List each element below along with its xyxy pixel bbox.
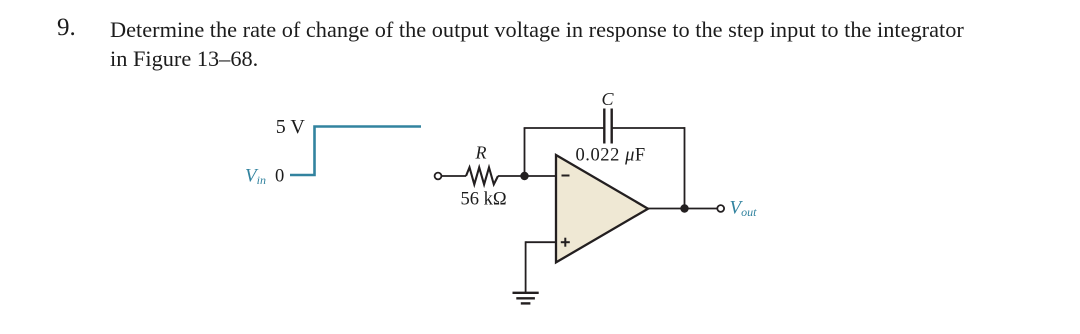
wire resistor to inverting input: [498, 175, 555, 177]
op-amp U1: [556, 155, 648, 262]
resistor R: [466, 167, 498, 184]
svg-text:56 kΩ: 56 kΩ: [461, 190, 507, 210]
inverting input minus sign: [562, 175, 570, 177]
svg-text:0.022 μF: 0.022 μF: [576, 146, 646, 166]
svg-text:R: R: [475, 143, 487, 163]
svg-text:5 V: 5 V: [276, 116, 306, 138]
ground: [513, 292, 539, 294]
wire node up to feedback: [524, 128, 526, 176]
feedback wire right segment: [612, 127, 685, 129]
wire input terminal to resistor: [442, 175, 466, 177]
input terminal: [435, 173, 442, 180]
capacitor C plates: [603, 109, 605, 144]
output terminal: [717, 205, 724, 212]
svg-text:Vout: Vout: [730, 198, 758, 220]
svg-text:0: 0: [275, 166, 284, 186]
feedback wire left segment: [524, 127, 605, 129]
node junction at inverting input: [520, 172, 528, 180]
svg-text:Vin: Vin: [245, 165, 266, 187]
wire down to ground: [525, 241, 527, 292]
noninverting input plus sign: [561, 241, 570, 243]
svg-text:C: C: [602, 89, 615, 109]
wire to noninverting input: [526, 241, 555, 243]
output node junction: [680, 204, 688, 212]
Vin step waveform: [290, 127, 421, 176]
output wire: [648, 208, 717, 210]
feedback wire down to output node: [684, 127, 686, 208]
